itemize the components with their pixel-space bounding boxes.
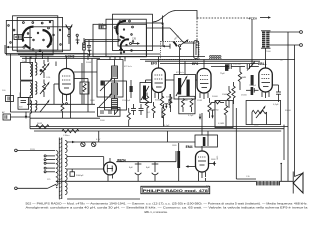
PHILIPS RADIO label box (141, 186, 210, 193)
speaker terminal A (270, 31, 303, 34)
capacitor (EF9) (168, 94, 172, 108)
svg-text:0,5MΩ: 0,5MΩ (218, 123, 225, 125)
resistor (EM4, 1M) (177, 143, 180, 181)
wire (S2 to gang) (115, 16, 164, 62)
speaker SP (293, 172, 303, 194)
trimmer capacitor (IFT1) (101, 81, 104, 86)
svg-text:50000: 50000 (166, 97, 173, 99)
resistor (horizontal) (211, 101, 224, 104)
grid bus wires (18, 54, 295, 75)
resistor (EF9 grid, dark) (130, 80, 133, 98)
capacitor (osc) (87, 40, 91, 52)
svg-text:75pF: 75pF (220, 73, 225, 75)
speaker terminal B (270, 44, 303, 47)
resistor (bus 2) (62, 129, 79, 137)
svg-text:0,1μF: 0,1μF (273, 104, 279, 106)
resistor (left edge) (2, 111, 30, 120)
resistor (bus, DKW) (36, 123, 49, 128)
arrow (EM4) (186, 165, 196, 167)
switch S2 wafer 2 (119, 39, 134, 53)
resistor (osc, narrow box) (194, 41, 199, 59)
coupling capacitor C (EBL1 grid) (211, 64, 259, 70)
coil (IFT1 primary) (112, 60, 118, 84)
trimmer arrow (IFT1 a) (100, 77, 113, 91)
svg-text:EBL 1, o viceversa.: EBL 1, o viceversa. (145, 210, 168, 214)
capacitor (strip 2) (139, 104, 144, 115)
svg-text:Avvolgimenti: conduttore a cor: Avvolgimenti: conduttore a corda 40 μH, … (26, 206, 309, 210)
switch S1 wiper arrow (6, 46, 25, 48)
resistor (mixer grid) box (80, 82, 89, 94)
svg-text:20000pF: 20000pF (233, 64, 242, 66)
trimmer arrow (IFT1 b) (99, 93, 112, 107)
capacitor (EBL1 grid stopper, dark) (220, 64, 228, 75)
resistor (EF6 screen) (208, 98, 211, 118)
capacitor 2000pF (rectifier) (70, 169, 84, 177)
earth post (76, 34, 78, 40)
voltage selector taps (44, 155, 55, 173)
wire (S1 bottom drops) (26, 56, 97, 104)
ground (119, 49, 123, 55)
ground (EF6) (211, 110, 215, 119)
capacitor 50pF (switch S1) (14, 35, 22, 40)
wire (EF9 links) (146, 80, 279, 85)
wire (5, 45, 88, 62)
svg-text:1MΩ: 1MΩ (90, 100, 95, 102)
switch S1 box (6, 16, 70, 55)
tube EBL1 (258, 48, 272, 98)
svg-text:O.M.: O.M. (46, 77, 51, 79)
svg-text:220V: 220V (30, 149, 35, 151)
trimmer (row1) (40, 60, 50, 78)
svg-text:1MΩ: 1MΩ (217, 155, 219, 160)
svg-text:5MΩ: 5MΩ (211, 159, 216, 161)
resistor (ECH3 cathode) (61, 100, 71, 118)
svg-text:50pF: 50pF (99, 24, 104, 26)
tube ECH3 (54, 54, 88, 104)
ground (76, 40, 80, 45)
shield dashed line (197, 18, 252, 48)
resistor (AVC) (224, 101, 227, 127)
svg-text:1MΩ: 1MΩ (242, 77, 247, 79)
svg-text:50000: 50000 (20, 92, 22, 98)
resistor (ECH3 anode) (83, 38, 86, 57)
resistor (strip 3) (152, 102, 155, 118)
svg-text:150Ω: 150Ω (197, 100, 202, 102)
tube EF9 (151, 62, 166, 100)
B+ bus lines (30, 118, 288, 131)
svg-text:8μF: 8μF (129, 167, 133, 169)
capacitor 500pF block (18, 97, 29, 109)
wire (ECH3 side verticals) (82, 58, 92, 112)
svg-text:EM4: EM4 (186, 145, 193, 149)
wire (10, 54, 95, 112)
switch S1 wafer 1 (13, 22, 43, 51)
resistor (EF9 cathode) (145, 93, 148, 119)
ground (EF6 cathode) (199, 114, 201, 120)
svg-text:472 kc/s: 472 kc/s (176, 72, 184, 74)
trimmer (row2) (40, 80, 50, 98)
svg-text:WE54: WE54 (117, 158, 126, 162)
resistor (EF9 anode) (169, 94, 172, 112)
svg-text:502 — PHILIPS RADIO — Mod. «47: 502 — PHILIPS RADIO — Mod. «478» — Avvia… (26, 202, 308, 206)
svg-text:2000pF: 2000pF (76, 175, 84, 177)
HT wire to rectifier (67, 168, 104, 170)
power transformer T4 (56, 138, 67, 200)
resistor (EBL1 grid leak) (238, 67, 246, 91)
coil (IFT1 secondary) (112, 83, 118, 99)
mains switch (48, 184, 58, 188)
svg-text:4 CEV: 4 CEV (248, 16, 257, 20)
resistor (EF9 screen) (160, 93, 163, 119)
chassis wire (57, 181, 293, 199)
svg-text:8μF: 8μF (146, 167, 150, 169)
svg-text:25000pF: 25000pF (122, 100, 131, 102)
EF6 cathode network box (179, 96, 195, 114)
capacitor (switch S2 input) (99, 24, 107, 29)
resistor (NFB, dark) (251, 75, 254, 95)
switch S1 wafer 2 (8, 21, 62, 51)
volume pot box (246, 101, 281, 125)
rectifier WE54 (104, 158, 126, 181)
capacitor (strip) (131, 104, 136, 115)
ground (left) (25, 112, 27, 120)
switch S2 wafer 1 (114, 20, 133, 38)
coil (osc padder) box (140, 83, 152, 103)
svg-text:C.Filtro: C.Filtro (63, 134, 70, 137)
EBL1 cathode box (215, 101, 233, 128)
antenna (66, 25, 73, 45)
component strip box (98, 108, 121, 117)
wire (147, 11, 198, 44)
switch S2 box (93, 14, 163, 57)
wire (S2 lower bus) (85, 40, 119, 45)
mains terminal 1 (15, 149, 55, 152)
svg-text:30000: 30000 (285, 110, 292, 112)
svg-text:PHILIPS RADIO mod. 478: PHILIPS RADIO mod. 478 (143, 188, 209, 193)
svg-text:25000: 25000 (241, 95, 248, 97)
field coil (256, 181, 280, 185)
tube EM4 (186, 145, 209, 178)
aerial coil box row1 (21, 57, 37, 81)
svg-text:20pF: 20pF (22, 61, 27, 63)
svg-text:0,1μF: 0,1μF (164, 125, 170, 127)
IF transformer T1 box (97, 60, 127, 111)
tuning gang dashed box (161, 39, 200, 64)
tube EF6 (192, 62, 211, 99)
resistor (EBL1 aux) (232, 82, 235, 104)
filter capacitor C2 (146, 162, 158, 182)
wire right verticals (236, 32, 302, 181)
resistor (strip 4) (162, 104, 165, 127)
arrow (EM4 right electrode) (209, 155, 219, 165)
aerial coil box row2 (21, 81, 37, 104)
heater wire with lamps (67, 141, 195, 147)
svg-text:EF6: EF6 (192, 62, 198, 66)
aerial coil row3 (30, 99, 50, 118)
EM4 top box (195, 131, 218, 147)
heater wire 2 (67, 157, 104, 166)
svg-text:472 kc/s: 472 kc/s (124, 66, 132, 68)
capacitor (EBL1 tone) (273, 85, 281, 106)
resistor (EBL1 cathode) (222, 86, 231, 108)
filter capacitor C1 (129, 162, 141, 182)
capacitor (EBL1 side) (246, 88, 259, 93)
svg-text:50000: 50000 (86, 62, 93, 64)
svg-text:7000pF: 7000pF (249, 85, 257, 87)
svg-text:EF9: EF9 (151, 62, 157, 66)
svg-text:150Ω: 150Ω (222, 94, 228, 96)
svg-text:300Ω: 300Ω (155, 100, 160, 102)
svg-text:100pF: 100pF (106, 56, 113, 58)
value labels (2, 51, 292, 187)
ground (strip) (164, 104, 168, 109)
ground (88, 50, 92, 56)
svg-text:6,3V: 6,3V (96, 139, 101, 141)
svg-text:C/B: C/B (132, 38, 136, 41)
svg-text:1MΩ: 1MΩ (254, 126, 259, 128)
output transformer T3 (261, 31, 271, 48)
svg-text:0,1μF: 0,1μF (188, 115, 194, 117)
inductor (bus choke) (210, 56, 222, 59)
wire (EM4 feed) (99, 113, 206, 181)
svg-text:50000: 50000 (212, 96, 219, 98)
mains terminal 2 (15, 187, 48, 190)
IF transformer T2 box (174, 75, 196, 100)
coil (IFT1 tertiary) (112, 99, 118, 116)
resistor (strip) (127, 108, 130, 127)
switch S2 wiper arrow (130, 38, 141, 45)
svg-text:C.E.: C.E. (246, 176, 250, 178)
trimmer arrow (EBL1) (247, 61, 255, 71)
capacitor input (6, 96, 14, 102)
node 4CEV feed (248, 16, 271, 66)
svg-text:1MΩ: 1MΩ (172, 145, 177, 147)
svg-text:2MΩ: 2MΩ (214, 110, 219, 112)
